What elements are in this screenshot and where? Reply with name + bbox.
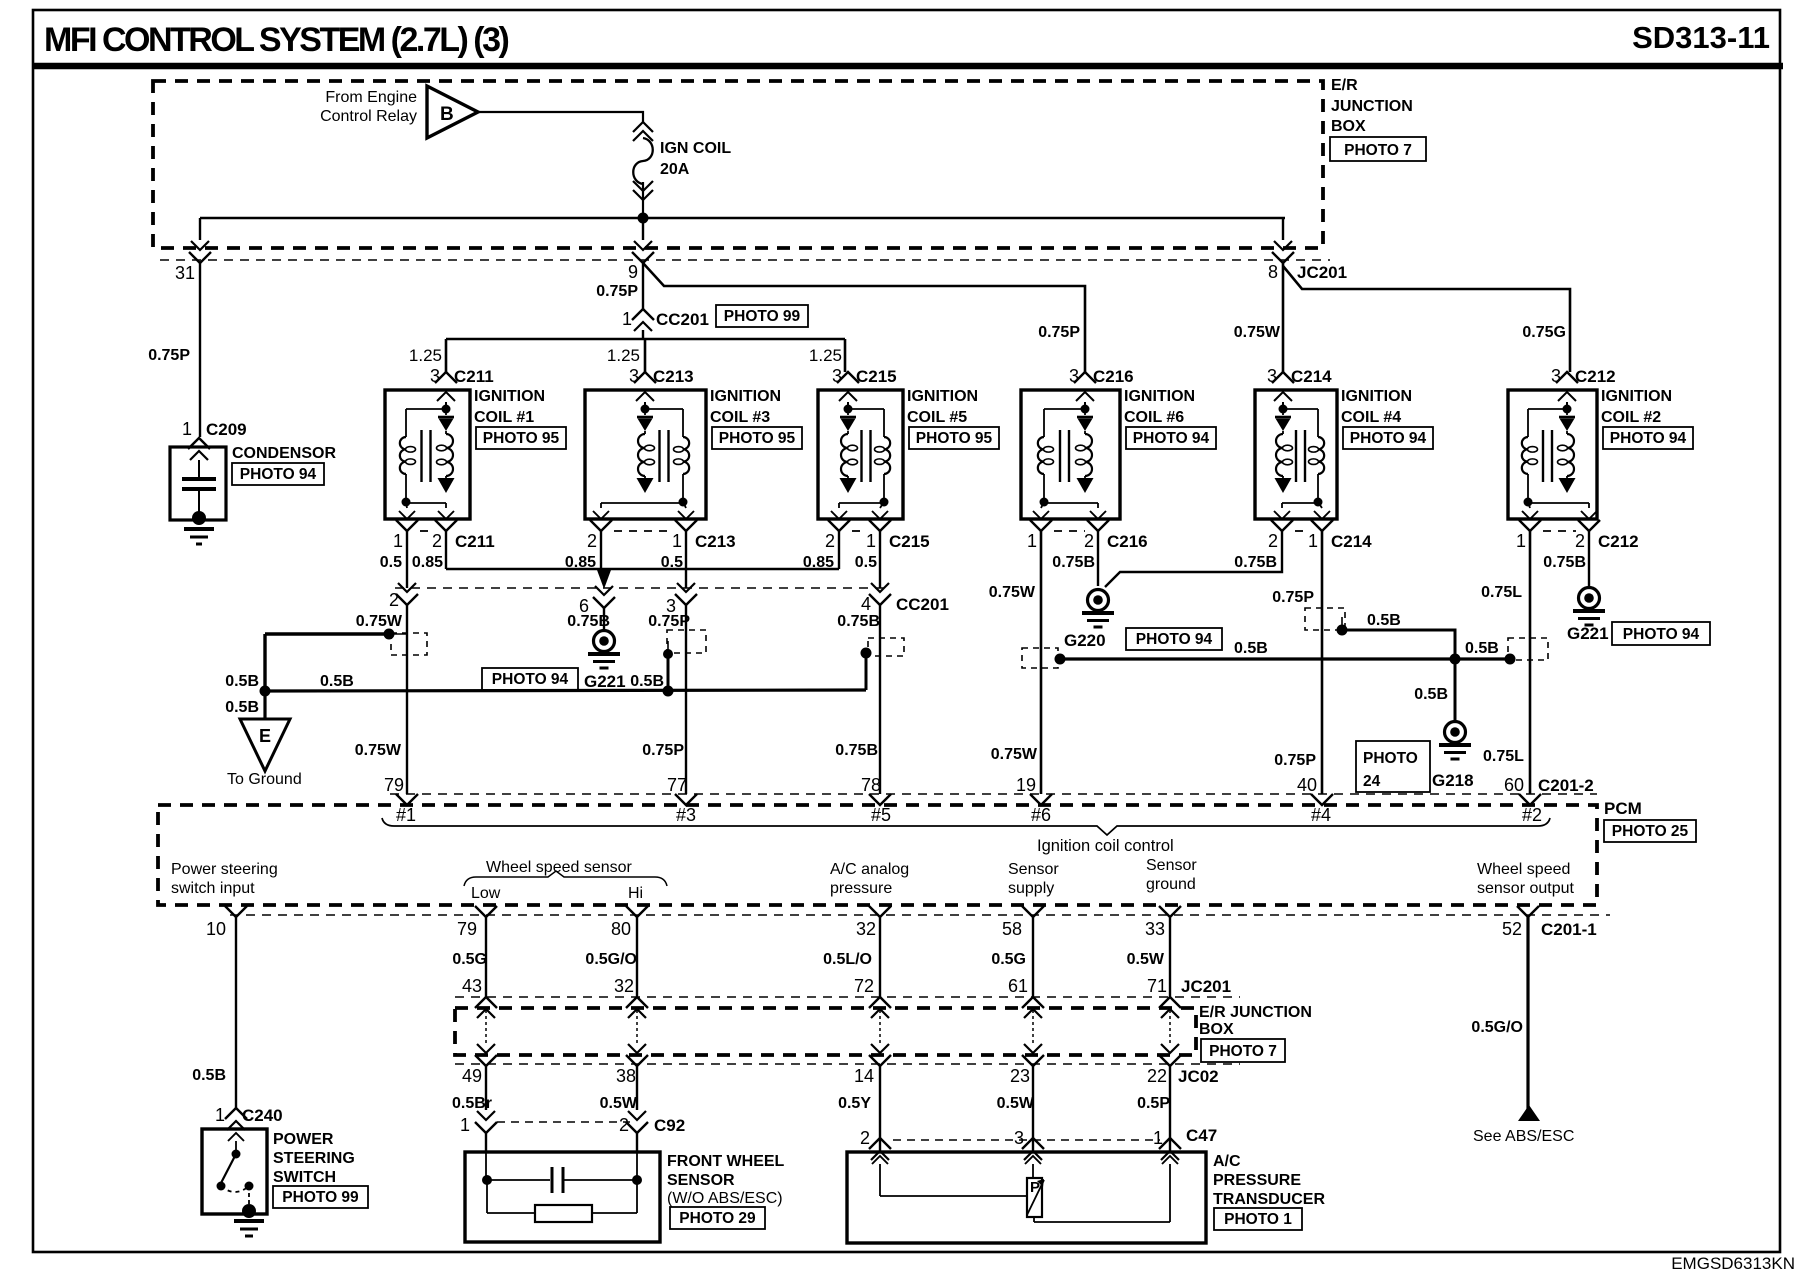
wheel speed sensor output wire 0.5G/O (1471, 917, 1528, 1110)
svg-text:#1: #1 (396, 805, 416, 825)
svg-text:ground: ground (1146, 876, 1196, 893)
ignition coil #1 internals (400, 402, 455, 508)
svg-text:0.5W: 0.5W (997, 1095, 1035, 1112)
ignition coil #6 bottom pins connector C216 (1027, 511, 1148, 571)
svg-text:#6: #6 (1031, 805, 1051, 825)
svg-text:C215: C215 (856, 367, 897, 386)
svg-text:C201-2: C201-2 (1538, 776, 1594, 795)
svg-text:PHOTO 94: PHOTO 94 (1136, 631, 1213, 648)
svg-text:IGNITION: IGNITION (474, 388, 545, 405)
ignition coil #3 connector pin 3 C213 (629, 366, 694, 401)
svg-text:0.75P: 0.75P (148, 347, 190, 364)
svg-text:PHOTO 95: PHOTO 95 (483, 430, 560, 447)
ignition coil #4 label (1341, 388, 1433, 449)
svg-text:3: 3 (832, 366, 842, 386)
svg-text:3: 3 (430, 366, 440, 386)
ground G221 right (C212-2) (1567, 531, 1710, 645)
svg-text:PHOTO 7: PHOTO 7 (1209, 1043, 1277, 1060)
svg-text:0.75B: 0.75B (1234, 554, 1277, 571)
svg-text:0.5Y: 0.5Y (838, 1095, 871, 1112)
svg-text:0.75W: 0.75W (1234, 324, 1281, 341)
wire C215-1 down to CC201-4 (879, 531, 881, 588)
svg-text:0.75B: 0.75B (835, 742, 878, 759)
A/C pressure transducer internals (872, 1156, 1178, 1222)
svg-text:IGN COIL: IGN COIL (660, 140, 731, 157)
vertical wires JC02 to components (486, 1066, 1170, 1152)
connector CC201 pin 6 (579, 586, 615, 616)
svg-text:1: 1 (1027, 531, 1037, 551)
condensor ground (184, 511, 214, 544)
svg-text:PCM: PCM (1604, 799, 1642, 818)
E/R junction box label + PHOTO 7 (1330, 77, 1426, 161)
svg-text:61: 61 (1008, 976, 1028, 996)
svg-text:0.5B: 0.5B (225, 673, 259, 690)
svg-text:MFI CONTROL SYSTEM (2.7L) (3): MFI CONTROL SYSTEM (2.7L) (3) (44, 21, 509, 59)
svg-text:PHOTO 95: PHOTO 95 (719, 430, 796, 447)
svg-text:SWITCH: SWITCH (273, 1169, 336, 1186)
ignition coil feed bus 1.25 (409, 330, 845, 372)
svg-text:TRANSDUCER: TRANSDUCER (1213, 1191, 1325, 1208)
connector CC201 pin 4 (861, 583, 949, 614)
PCM pin numbers above connector C201-2 (384, 775, 1594, 795)
0.5B ground bus (right) (1055, 640, 1516, 665)
svg-text:BOX: BOX (1331, 118, 1366, 135)
svg-text:2: 2 (389, 590, 399, 610)
svg-text:0.75W: 0.75W (991, 746, 1038, 763)
dashed splice box at 0.75W tap (391, 633, 427, 655)
svg-text:32: 32 (614, 976, 634, 996)
ignition coil #5 label (907, 388, 999, 449)
svg-text:BOX: BOX (1199, 1021, 1234, 1038)
svg-text:pressure: pressure (830, 880, 892, 897)
from engine control relay label (320, 89, 417, 125)
power steering switch internals (217, 1133, 265, 1236)
fuse IGN COIL 20A (633, 122, 653, 218)
svg-text:G218: G218 (1432, 771, 1474, 790)
dashed splice box on 0.75L wire (1508, 638, 1548, 660)
svg-text:PHOTO 94: PHOTO 94 (1350, 430, 1427, 447)
connector row JC201 (dashed) (455, 996, 1240, 998)
condensor labels (232, 445, 336, 485)
svg-text:C214: C214 (1291, 367, 1332, 386)
wire C212-1 0.75L down to PCM #2 (1481, 531, 1530, 794)
svg-text:C201-1: C201-1 (1541, 920, 1597, 939)
wire pin9 branch to coil #6 (0.75P) (643, 263, 1085, 372)
svg-text:PHOTO 25: PHOTO 25 (1612, 823, 1689, 840)
svg-text:43: 43 (462, 976, 482, 996)
svg-text:C214: C214 (1331, 532, 1372, 551)
svg-text:See ABS/ESC: See ABS/ESC (1473, 1128, 1574, 1145)
svg-text:0.75B: 0.75B (1543, 554, 1586, 571)
connector C209 pin 1 (182, 419, 247, 460)
svg-text:1: 1 (672, 531, 682, 551)
connector row JC02 (dashed) (455, 1063, 1240, 1065)
page number SD313-11 (1632, 20, 1770, 55)
ignition coil #3 C213 box (585, 390, 706, 519)
svg-text:23: 23 (1010, 1066, 1030, 1086)
ground G220 (C216-2) (1064, 531, 1222, 650)
ground G218 (1432, 722, 1524, 791)
svg-text:COIL #6: COIL #6 (1124, 409, 1184, 426)
svg-text:0.75B: 0.75B (1052, 554, 1095, 571)
svg-text:3: 3 (1069, 366, 1079, 386)
merge arrow into CC201-6 (597, 570, 611, 589)
ignition coil #5 connector pin 3 C215 (832, 366, 897, 401)
svg-text:0.5B: 0.5B (1465, 640, 1499, 657)
svg-text:C92: C92 (654, 1116, 685, 1135)
ignition coil #1 bottom pins connector C211 (380, 511, 495, 571)
wire C215-2 to merge bus (838, 531, 840, 569)
svg-text:Sensor: Sensor (1008, 861, 1059, 878)
ignition coil #6 label (1124, 388, 1216, 449)
connector triangle B (427, 86, 478, 138)
svg-text:0.5B: 0.5B (630, 673, 664, 690)
svg-text:G221: G221 (584, 672, 626, 691)
svg-text:supply: supply (1008, 880, 1054, 897)
E/R junction box lower (dashed) (455, 1008, 1196, 1055)
svg-text:Control Relay: Control Relay (320, 108, 417, 125)
svg-text:0.5B: 0.5B (320, 673, 354, 690)
ignition coil #3 bottom pins connector C213 (565, 511, 736, 571)
svg-text:0.5G/O: 0.5G/O (1471, 1019, 1523, 1036)
svg-text:0.75P: 0.75P (642, 742, 684, 759)
svg-text:72: 72 (854, 976, 874, 996)
PCM function labels (171, 857, 1575, 902)
svg-text:PHOTO 1: PHOTO 1 (1224, 1211, 1292, 1228)
wire size labels row 2 (lower) (452, 1095, 1170, 1112)
svg-text:JC02: JC02 (1178, 1067, 1219, 1086)
svg-text:0.75L: 0.75L (1481, 584, 1522, 601)
ignition coil #4 bottom pins connector C214 (1234, 511, 1372, 571)
svg-text:2: 2 (825, 531, 835, 551)
thin dashed connector row under junction box (160, 259, 1330, 261)
svg-text:PHOTO 94: PHOTO 94 (1610, 430, 1687, 447)
JC201 pin labels (462, 976, 1231, 996)
wire JC201-8 to coil #4 (0.75W) (1234, 263, 1283, 372)
svg-text:0.5B: 0.5B (1414, 686, 1448, 703)
svg-text:49: 49 (462, 1066, 482, 1086)
svg-text:C216: C216 (1107, 532, 1148, 551)
svg-text:52: 52 (1502, 919, 1522, 939)
svg-text:40: 40 (1297, 775, 1317, 795)
svg-text:0.5W: 0.5W (1127, 951, 1165, 968)
svg-text:33: 33 (1145, 919, 1165, 939)
svg-text:1.25: 1.25 (409, 346, 442, 365)
svg-text:9: 9 (628, 262, 638, 282)
svg-text:PHOTO: PHOTO (1363, 750, 1418, 767)
svg-text:Low: Low (471, 885, 501, 902)
wire C214-1 0.75P down to PCM #4 (1272, 531, 1322, 794)
svg-text:0.5B: 0.5B (225, 699, 259, 716)
svg-text:C213: C213 (695, 532, 736, 551)
svg-text:1: 1 (215, 1105, 225, 1125)
svg-text:SENSOR: SENSOR (667, 1172, 735, 1189)
svg-text:PHOTO 7: PHOTO 7 (1344, 142, 1412, 159)
svg-text:0.5G: 0.5G (452, 951, 487, 968)
connector row C201-1 (dashed) (230, 914, 1610, 916)
merge bus 0.85 wires (446, 568, 839, 571)
svg-text:PHOTO 95: PHOTO 95 (916, 430, 993, 447)
ignition coil #2 connector pin 3 C212 (1551, 366, 1616, 401)
front wheel sensor box (465, 1152, 660, 1242)
svg-text:JC201: JC201 (1297, 263, 1347, 282)
svg-text:C213: C213 (653, 367, 694, 386)
svg-text:0.5B: 0.5B (192, 1067, 226, 1084)
PCM pin chevrons on top edge (396, 794, 1541, 805)
svg-text:PRESSURE: PRESSURE (1213, 1172, 1301, 1189)
wire C211-1 down to CC201-2 (406, 531, 408, 588)
svg-text:PHOTO 94: PHOTO 94 (1623, 626, 1700, 643)
A/C pressure transducer box (847, 1152, 1206, 1243)
svg-text:1: 1 (1153, 1128, 1163, 1148)
ignition coil #6 C216 box (1021, 390, 1120, 519)
wire 0.75P to condensor C209 (148, 263, 200, 437)
ignition coil #1 label (474, 388, 566, 449)
ignition coil #5 internals (839, 402, 890, 508)
svg-text:#2: #2 (1522, 805, 1542, 825)
svg-text:0.75G: 0.75G (1522, 324, 1566, 341)
svg-text:1: 1 (622, 309, 632, 329)
svg-text:78: 78 (861, 775, 881, 795)
svg-text:0.75L: 0.75L (1483, 748, 1524, 765)
svg-text:4: 4 (861, 594, 871, 614)
PCM box (dashed) (158, 805, 1597, 905)
svg-text:Sensor: Sensor (1146, 857, 1197, 874)
svg-text:0.5G/O: 0.5G/O (585, 951, 637, 968)
svg-text:1: 1 (460, 1115, 470, 1135)
title MFI CONTROL SYSTEM (2.7L) (3) (44, 21, 509, 59)
E/R junction box lower labels (1199, 1004, 1312, 1062)
svg-text:C209: C209 (206, 420, 247, 439)
svg-text:1.25: 1.25 (607, 346, 640, 365)
ground G221 left (CC201-6) (482, 608, 626, 691)
svg-text:COIL #2: COIL #2 (1601, 409, 1661, 426)
pin 31 label (175, 263, 195, 283)
PCM bottom pin chevrons (225, 906, 1539, 917)
ignition coil #6 internals (1038, 402, 1098, 508)
svg-text:0.75B: 0.75B (837, 613, 880, 630)
to-ground triangle E (225, 691, 302, 788)
svg-text:79: 79 (457, 919, 477, 939)
svg-text:71: 71 (1147, 976, 1167, 996)
svg-text:0.75P: 0.75P (1274, 752, 1316, 769)
svg-text:IGNITION: IGNITION (710, 388, 781, 405)
svg-text:10: 10 (206, 919, 226, 939)
svg-text:sensor output: sensor output (1477, 880, 1575, 897)
svg-text:0.5W: 0.5W (600, 1095, 638, 1112)
svg-text:G220: G220 (1064, 631, 1106, 650)
svg-text:A/C analog: A/C analog (830, 861, 909, 878)
svg-text:PHOTO 99: PHOTO 99 (282, 1189, 359, 1206)
connector CC201 pin 3 (666, 583, 697, 616)
svg-text:FRONT WHEEL: FRONT WHEEL (667, 1153, 785, 1170)
0.5B splice stub at 0.75P wire (630, 605, 686, 794)
svg-text:77: 77 (667, 775, 687, 795)
svg-text:COIL #1: COIL #1 (474, 409, 534, 426)
svg-text:IGNITION: IGNITION (1341, 388, 1412, 405)
svg-text:C212: C212 (1598, 532, 1639, 551)
connector C47 row (860, 1126, 1217, 1160)
wire pin9 down to CC201 pin 1 (642, 263, 644, 309)
svg-text:E/R: E/R (1331, 77, 1358, 94)
svg-text:0.75P: 0.75P (648, 613, 690, 630)
svg-text:22: 22 (1147, 1066, 1167, 1086)
svg-text:0.75W: 0.75W (356, 613, 403, 630)
svg-text:PHOTO 99: PHOTO 99 (724, 308, 801, 325)
svg-text:C212: C212 (1575, 367, 1616, 386)
vertical wires PCM to JC201 (236, 917, 1170, 1108)
svg-text:0.5G: 0.5G (991, 951, 1026, 968)
svg-text:C211: C211 (455, 532, 495, 551)
svg-text:0.75P: 0.75P (1038, 324, 1080, 341)
svg-text:1: 1 (866, 531, 876, 551)
wire size labels above PCM left columns (355, 742, 878, 759)
svg-text:PHOTO 94: PHOTO 94 (492, 671, 569, 688)
power steering switch labels (273, 1131, 368, 1208)
svg-text:2: 2 (1084, 531, 1094, 551)
main power bus wire (200, 217, 1285, 219)
capacitor inside condensor (182, 460, 216, 519)
svg-text:1: 1 (1308, 531, 1318, 551)
0.5B stub to 0.75B wire (right end of left bus) (861, 605, 881, 794)
PCM # labels (396, 805, 1542, 825)
svg-text:CC201: CC201 (896, 595, 949, 614)
svg-text:3: 3 (1267, 366, 1277, 386)
svg-text:COIL #5: COIL #5 (907, 409, 967, 426)
svg-text:3: 3 (1014, 1128, 1024, 1148)
svg-text:C216: C216 (1093, 367, 1134, 386)
svg-text:32: 32 (856, 919, 876, 939)
svg-text:60: 60 (1504, 775, 1524, 795)
connector C92 row (460, 1111, 685, 1152)
connector row CC201 (dashed) (395, 587, 885, 589)
ignition coil #6 connector pin 3 C216 (1069, 366, 1134, 401)
wire labels under CC201 (356, 613, 880, 630)
plot code EMGSD6313KN (1671, 1254, 1795, 1273)
svg-text:2: 2 (1268, 531, 1278, 551)
dashed splice box at 0.75P wire (667, 630, 706, 653)
svg-text:0.75W: 0.75W (355, 742, 402, 759)
svg-text:B: B (440, 104, 454, 125)
svg-text:CC201: CC201 (656, 310, 709, 329)
svg-text:PHOTO 29: PHOTO 29 (679, 1210, 756, 1227)
svg-text:JC201: JC201 (1181, 977, 1231, 996)
svg-text:0.75P: 0.75P (596, 283, 638, 300)
power steering switch wire 0.5B (192, 1067, 282, 1130)
svg-text:2: 2 (619, 1115, 629, 1135)
wire C213-2 to merge bus (600, 531, 602, 569)
svg-text:Hi: Hi (628, 885, 643, 902)
svg-text:1: 1 (393, 531, 403, 551)
ignition coil #4 internals (1275, 402, 1325, 508)
svg-text:2: 2 (587, 531, 597, 551)
svg-text:E/R JUNCTION: E/R JUNCTION (1199, 1004, 1312, 1021)
ignition coil #2 C212 box (1508, 390, 1597, 519)
svg-text:0.75W: 0.75W (989, 584, 1036, 601)
svg-text:C215: C215 (889, 532, 930, 551)
svg-text:2: 2 (860, 1128, 870, 1148)
dashed splice box on 0.75W wire (1022, 648, 1058, 668)
svg-text:1.25: 1.25 (809, 346, 842, 365)
wire C216-1 0.75W down to PCM #6 (989, 531, 1041, 794)
ignition coil #1 C211 box (385, 390, 470, 519)
ignition coil #5 C215 box (818, 390, 903, 519)
C201-1 pin labels (206, 919, 1597, 939)
svg-text:2: 2 (1575, 531, 1585, 551)
svg-text:0.85: 0.85 (412, 554, 443, 571)
svg-text:COIL #3: COIL #3 (710, 409, 770, 426)
wire size labels row 1 (lower) (452, 951, 1165, 968)
svg-text:(W/O ABS/ESC): (W/O ABS/ESC) (667, 1190, 783, 1207)
svg-text:G221: G221 (1567, 624, 1609, 643)
svg-text:IGNITION: IGNITION (1124, 388, 1195, 405)
svg-text:SD313-11: SD313-11 (1632, 20, 1770, 55)
svg-text:E: E (259, 726, 271, 746)
svg-text:#5: #5 (871, 805, 891, 825)
svg-text:CONDENSOR: CONDENSOR (232, 445, 336, 462)
wire JC201-8 branch to coil #2 (0.75G) (1283, 266, 1570, 372)
svg-text:0.5: 0.5 (855, 554, 877, 571)
svg-text:COIL #4: COIL #4 (1341, 409, 1401, 426)
condensor box (170, 447, 226, 520)
ignition coil #2 label (1601, 388, 1693, 449)
ignition coil #4 connector pin 3 C214 (1267, 366, 1332, 401)
ignition coil #3 internals (601, 402, 689, 508)
svg-text:POWER: POWER (273, 1131, 334, 1148)
svg-text:0.5L/O: 0.5L/O (823, 951, 872, 968)
svg-text:Wheel speed: Wheel speed (1477, 861, 1570, 878)
svg-text:0.5P: 0.5P (1137, 1095, 1170, 1112)
svg-text:IGNITION: IGNITION (1601, 388, 1672, 405)
connector CC201 pin 1 (622, 305, 808, 331)
svg-text:3: 3 (629, 366, 639, 386)
power steering switch box (202, 1129, 267, 1214)
svg-text:8: 8 (1268, 262, 1278, 282)
svg-text:24: 24 (1363, 773, 1381, 790)
wire drop to pin 31 (189, 218, 211, 263)
svg-text:EMGSD6313KN: EMGSD6313KN (1671, 1254, 1795, 1273)
wire C213-1 down to CC201-3 (685, 531, 687, 588)
svg-text:To Ground: To Ground (227, 771, 302, 788)
svg-text:2: 2 (432, 531, 442, 551)
svg-text:PHOTO 94: PHOTO 94 (1133, 430, 1210, 447)
svg-text:3: 3 (1551, 366, 1561, 386)
svg-text:switch input: switch input (171, 880, 255, 897)
connector row C201-2 (dashed) (390, 793, 1597, 795)
svg-text:1: 1 (182, 419, 192, 439)
svg-text:0.5B: 0.5B (1234, 640, 1268, 657)
svg-text:#3: #3 (676, 805, 696, 825)
svg-text:C47: C47 (1186, 1126, 1217, 1145)
svg-text:20A: 20A (660, 161, 690, 178)
ignition coil #4 C214 box (1255, 390, 1337, 519)
wire from triangle B to fuse (478, 112, 643, 122)
fuse label IGN COIL 20A (660, 140, 731, 178)
ignition coil #2 internals (1522, 402, 1589, 508)
dashed splice box on 0.75P wire (1305, 608, 1345, 630)
svg-text:Ignition coil control: Ignition coil control (1037, 837, 1174, 855)
wire 0.5B to ground G218 (1414, 659, 1455, 721)
junction box pass-through arrows (475, 997, 1181, 1066)
svg-text:0.75P: 0.75P (1272, 589, 1314, 606)
svg-text:A/C: A/C (1213, 1153, 1241, 1170)
0.5B ground bus (left) (260, 673, 867, 697)
svg-text:1: 1 (1516, 531, 1526, 551)
svg-text:80: 80 (611, 919, 631, 939)
see ABS/ESC arrow (1473, 1105, 1574, 1145)
ignition coil #2 bottom pins connector C212 (1516, 511, 1639, 571)
svg-text:#4: #4 (1311, 805, 1331, 825)
